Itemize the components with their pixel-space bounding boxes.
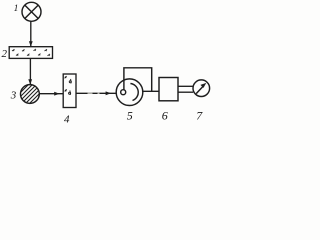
svg-text:7: 7: [196, 108, 203, 122]
column 4 (vertical rectangle): [63, 74, 76, 108]
bypass loop from pump 5 top to outlet wire: [124, 68, 152, 91]
svg-text:2: 2: [2, 48, 8, 60]
wire 1 to 2 with arrowhead: [30, 21, 32, 46]
svg-text:1: 1: [14, 4, 19, 14]
svg-text:3: 3: [10, 90, 17, 102]
rotary pump 5: [116, 79, 143, 106]
svg-text:6: 6: [162, 108, 168, 122]
svg-text:5: 5: [127, 108, 133, 122]
ticks inside column 4: [65, 76, 72, 95]
wire 2 to 3 with arrowhead: [29, 58, 31, 84]
filter box 2: [9, 47, 52, 59]
wire 3 to 4 with arrowhead: [39, 93, 63, 95]
gauge 7 (circle with needle arrow): [193, 80, 210, 97]
wire 5 to 6: [143, 90, 159, 92]
granule ticks inside box 2: [12, 49, 50, 56]
wire 4 to 5 with arrowhead: [76, 92, 116, 94]
double-line stem 6 to 7: [178, 86, 193, 92]
lamp/source symbol 1 (circle with X): [22, 2, 41, 21]
box 6: [159, 78, 178, 101]
svg-text:4: 4: [64, 114, 70, 124]
blower 3 (hatched circle): [14, 76, 48, 110]
